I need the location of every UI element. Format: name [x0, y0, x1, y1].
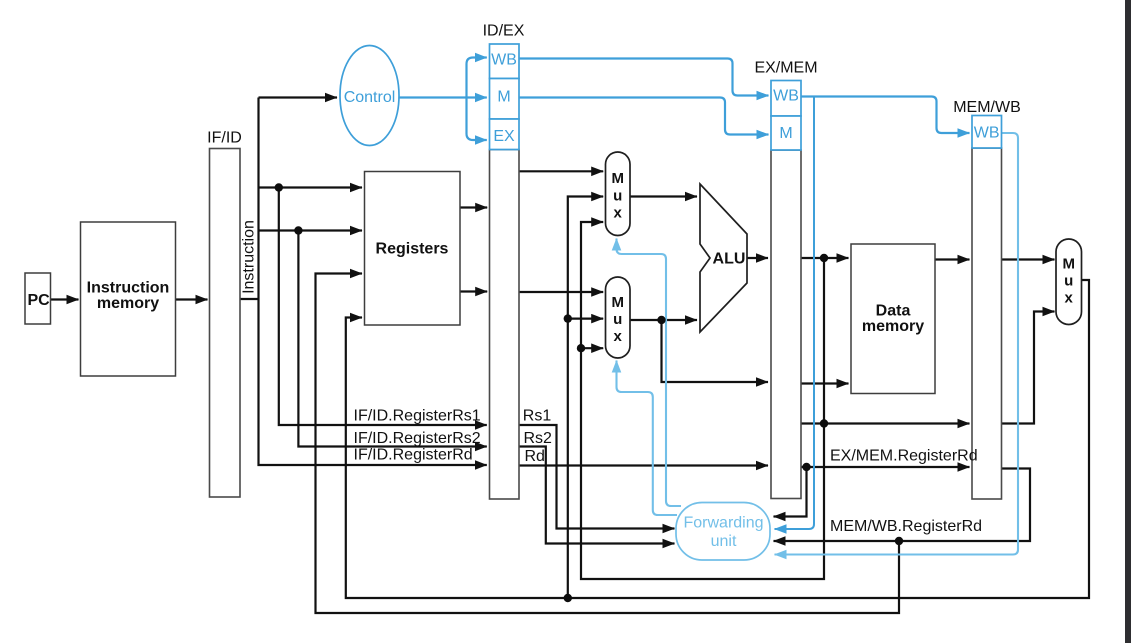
right Mux	[1056, 239, 1082, 325]
svg-text:memory: memory	[862, 318, 924, 335]
junction dot ALU result to MEM/WB	[820, 419, 828, 427]
wire feed to Control	[259, 96, 338, 98]
light blue wire MEM/WB WB tap down to forwarding unit	[775, 133, 1019, 555]
pipeline register MEM/WB	[972, 148, 1002, 499]
wire MEM/WB ALU result to right mux	[1002, 312, 1055, 424]
wire ID/EX read data 1 to Mux A	[519, 170, 603, 172]
blue wire EX/MEM WB to MEM/WB WB	[801, 97, 970, 134]
svg-text:Forwarding: Forwarding	[683, 515, 763, 532]
wire Mux B output to ALU	[630, 319, 697, 321]
ID/EX WB box	[490, 44, 520, 79]
svg-text:u: u	[613, 311, 622, 328]
svg-text:WB: WB	[974, 125, 1000, 142]
wire EX/MEM.RegisterRd ID/EX to EX/MEM	[519, 464, 768, 466]
svg-text:M: M	[1062, 256, 1075, 273]
pipeline register IF/ID	[210, 149, 241, 498]
svg-text:EX/MEM.RegisterRd: EX/MEM.RegisterRd	[830, 448, 978, 465]
pipeline register EX/MEM	[771, 150, 801, 499]
wire store data branch to EX/MEM	[662, 320, 769, 382]
ID/EX M box	[490, 79, 520, 120]
svg-text:M: M	[497, 89, 510, 106]
svg-text:x: x	[614, 328, 623, 345]
junction dot MEM/WB.RegisterRd branch	[895, 537, 903, 545]
wire EX/MEM store data to Data memory write data	[801, 382, 849, 384]
Instruction memory box	[81, 222, 176, 376]
svg-text:PC: PC	[28, 292, 51, 309]
wire write-back data return from right mux	[346, 280, 1089, 598]
svg-text:IF/ID.RegisterRs1: IF/ID.RegisterRs1	[354, 408, 481, 425]
svg-text:Rs2: Rs2	[524, 430, 553, 447]
wire EX/MEM.RegisterRd branch to forwarding unit	[774, 467, 807, 517]
wire ID/EX read data 2 to Mux B	[519, 291, 603, 293]
PC box	[25, 273, 51, 324]
Mux B (lower)	[606, 277, 631, 358]
ID/EX EX box	[490, 119, 520, 150]
svg-text:EX/MEM: EX/MEM	[754, 60, 817, 77]
wire ALU result to EX/MEM	[747, 257, 768, 259]
wire MEM/WB forward branch to Mux B input 2	[568, 318, 603, 320]
blue wire Control output to ID/EX M	[399, 96, 487, 98]
svg-text:M: M	[611, 294, 624, 311]
svg-text:ALU: ALU	[713, 251, 746, 268]
MEM/WB WB box	[972, 116, 1002, 149]
svg-text:Rd: Rd	[525, 448, 545, 465]
wire instruction vertical trunk + IF/ID.RegisterRd	[259, 98, 487, 466]
light blue wire ForwardB select to Mux B	[617, 361, 678, 516]
blue wire ID/EX WB to EX/MEM WB	[519, 59, 769, 96]
right frame bar	[1125, 0, 1131, 643]
blue wire Control splitter down to ID/EX EX	[467, 98, 487, 141]
wire PC to Instruction memory	[51, 298, 79, 300]
junction dot write-back bottom	[564, 594, 572, 602]
svg-text:Registers: Registers	[376, 241, 449, 258]
wire IF/ID.RegisterRs1	[279, 188, 487, 426]
wire EX/MEM ALU result to MEM/WB	[801, 422, 970, 424]
blue wire Control splitter up to ID/EX WB	[467, 58, 487, 98]
junction dot read reg 2 branch	[294, 226, 302, 234]
svg-text:MEM/WB: MEM/WB	[953, 99, 1021, 116]
Control oval	[340, 46, 399, 146]
junction dot read reg 1 branch	[275, 183, 283, 191]
svg-text:ID/EX: ID/EX	[483, 23, 525, 40]
junction dot ALU result forward	[820, 254, 828, 262]
svg-text:WB: WB	[491, 52, 517, 69]
svg-text:EX: EX	[493, 128, 515, 145]
svg-text:M: M	[779, 125, 792, 142]
svg-text:Data: Data	[876, 303, 911, 320]
EX/MEM WB box	[771, 81, 801, 117]
wire EX/MEM.RegisterRd EX/MEM to MEM/WB	[801, 466, 970, 468]
junction dot EX/MEM.RegisterRd branch	[802, 463, 810, 471]
wire Registers read data 1 to ID/EX	[460, 206, 487, 208]
svg-text:Instruction: Instruction	[87, 280, 170, 297]
wire to Registers read reg 2	[259, 229, 363, 231]
wire Registers read data 2 to ID/EX	[460, 290, 487, 292]
junction dot store data branch	[657, 316, 665, 324]
svg-text:u: u	[613, 188, 622, 205]
wire Mux A output to ALU	[630, 195, 697, 197]
light blue wire ForwardA select to Mux A	[617, 239, 682, 507]
pipeline register ID/EX	[490, 150, 520, 500]
wire MEM/WB read data to right mux	[1002, 258, 1055, 260]
svg-text:WB: WB	[773, 88, 799, 105]
wire EX/MEM ALU result to Data memory address	[801, 257, 849, 259]
wire IF/ID.RegisterRs2	[298, 231, 486, 447]
wire MEM/WB forward vertical to Mux A input 2	[568, 197, 603, 599]
svg-text:IF/ID.RegisterRd: IF/ID.RegisterRd	[354, 447, 473, 464]
wire MEM/WB.RegisterRd to forwarding unit	[774, 469, 1031, 542]
junction dot Mux B input 2	[564, 314, 572, 322]
ALU	[700, 184, 747, 332]
wire EX/MEM forward branch to Mux B input 3	[581, 347, 603, 349]
svg-text:IF/ID.RegisterRs2: IF/ID.RegisterRs2	[354, 430, 481, 447]
wire Instruction memory to IF/ID	[176, 298, 208, 300]
svg-text:Instruction: Instruction	[241, 220, 258, 294]
svg-text:Control: Control	[344, 89, 396, 106]
wire to Registers read reg 1	[259, 186, 363, 188]
wire EX/MEM forward path to Mux A input 3	[581, 222, 824, 579]
Registers box	[365, 172, 461, 326]
Mux A (upper)	[606, 152, 631, 236]
wire write-register return from MEM/WB.RegisterRd	[316, 274, 900, 614]
Data memory box	[851, 244, 935, 394]
Forwarding unit	[676, 503, 770, 561]
svg-text:x: x	[614, 205, 623, 222]
wire Data memory read data to MEM/WB	[935, 258, 970, 260]
svg-text:Rs1: Rs1	[523, 408, 552, 425]
wire Rs2 from ID/EX to forwarding unit	[519, 447, 675, 544]
wire Rs1 from ID/EX to forwarding unit	[519, 425, 675, 529]
svg-text:MEM/WB.RegisterRd: MEM/WB.RegisterRd	[830, 518, 982, 535]
light blue wire EX/MEM WB tap down to forwarding unit	[775, 97, 815, 530]
svg-text:M: M	[611, 170, 624, 187]
svg-text:x: x	[1065, 290, 1074, 307]
svg-text:unit: unit	[711, 533, 737, 550]
EX/MEM M box	[771, 116, 801, 150]
blue wire ID/EX M to EX/MEM M	[519, 98, 769, 135]
wire instruction stub from IF/ID	[240, 298, 260, 300]
junction dot Mux B input 3	[577, 344, 585, 352]
svg-text:IF/ID: IF/ID	[207, 130, 242, 147]
svg-text:u: u	[1064, 273, 1073, 290]
svg-text:memory: memory	[97, 295, 159, 312]
